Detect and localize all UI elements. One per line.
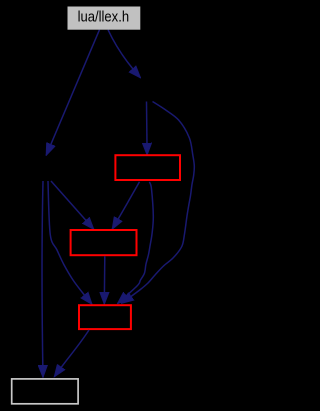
edge lobject.h -> stdarg.h (wire) <box>41 181 44 377</box>
node lua.h (red box R3) <box>79 305 131 329</box>
edge llimits.h -> lua.h (wire) <box>103 256 106 304</box>
svg-text:lua/llex.h: lua/llex.h <box>78 10 130 26</box>
edge lzio.h -> lua.h (wire) <box>122 102 195 304</box>
edge llex.h -> lzio.h (wire) <box>108 30 141 78</box>
edge lobject.h -> llimits.h (wire) <box>51 181 94 229</box>
edge lobject.h -> lua.h (wire) <box>48 181 92 304</box>
edge lmem.h -> lua.h (wire) <box>118 182 154 304</box>
edge lua.h -> stdarg.h (wire) <box>54 330 89 377</box>
node stdarg.h (grey box) <box>12 379 78 404</box>
edge lmem.h -> llimits.h (wire) <box>112 182 139 229</box>
edge llex.h -> lobject.h (wire) <box>46 30 99 156</box>
edge lzio.h -> lmem.h (wire) <box>146 102 149 156</box>
node lmem.h (red box R1) <box>115 155 180 180</box>
node llimits.h (red box R2) <box>71 230 137 255</box>
node lua/llex.h (root, grey filled) <box>68 7 141 30</box>
